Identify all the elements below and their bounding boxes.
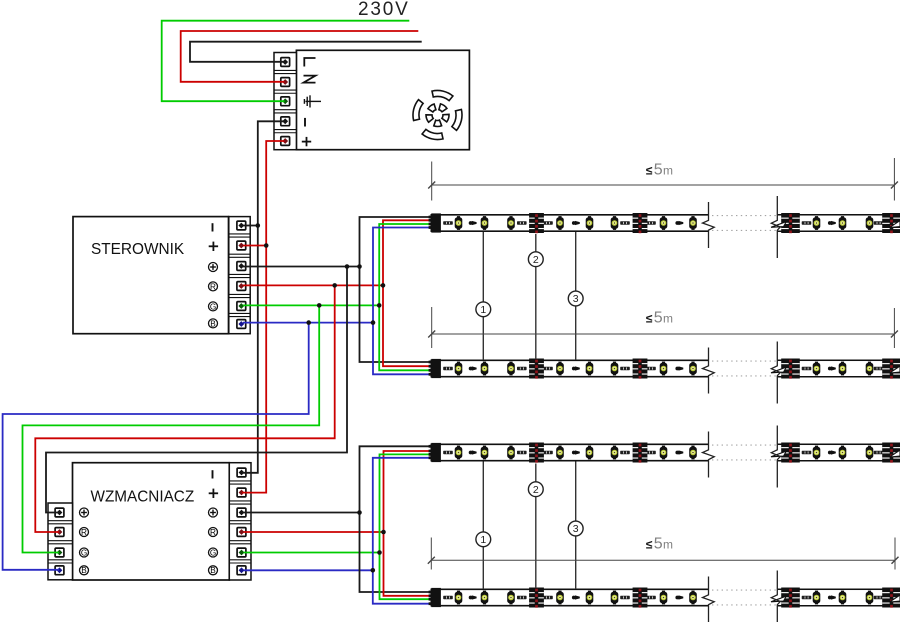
controller label plus [209,245,218,247]
svg-text:R: R [210,528,216,537]
direction arrow [469,450,477,454]
direction arrow [572,595,580,599]
SMD value label [874,221,884,224]
direction arrow [675,595,683,599]
SMD value label [646,451,656,454]
SMD value label [543,221,553,224]
amplifier left label circled B [80,566,89,575]
strip S4 body right segment [777,589,897,605]
LED module [813,446,821,460]
solder pads (cut point) [633,359,648,379]
direction arrow [675,366,683,370]
solder pads (cut point) [781,213,800,233]
direction arrow [828,221,836,225]
SMD value label [874,451,884,454]
wire amplifier R output (red) [244,531,384,533]
amplifier label minus [212,470,214,478]
SMD value label [646,367,656,370]
direction arrow [572,450,580,454]
wire branch common to amplifier input (black) [46,267,347,513]
direction arrow [675,221,683,225]
wire controller G output (green) [243,304,379,306]
wire amplifier common output (black) [244,512,360,514]
LED module [689,362,697,376]
PSU terminal label N (rotated) [304,76,316,83]
svg-text:3: 3 [573,293,579,305]
wire controller R output (red) [243,284,383,286]
LED module [507,216,515,230]
SMD value label [443,596,453,599]
wire bundle pair1 common (black) [360,217,432,362]
solder pads (cut point) [882,359,900,379]
wire link 3 pair2 [575,462,577,590]
strip S2 break line right [771,342,780,404]
controller terminal - [237,221,246,230]
amplifier in terminal B [55,566,64,575]
LED module [839,446,847,460]
LED module [455,591,463,605]
wire link 3 pair1 [575,232,577,360]
controller STEROWNIK body [73,217,229,334]
svg-text:B: B [210,319,216,328]
dimension max 5m strip S4 [428,538,899,570]
wire bundle pair2 R (red) [384,451,432,596]
SMD value label [802,451,812,454]
amplifier right terminal strip [229,463,251,580]
svg-text:5: 5 [654,162,663,179]
solder pads (cut point) [529,213,544,233]
LED module [813,216,821,230]
svg-text:1: 1 [480,534,486,546]
controller terminal strip [229,217,250,334]
controller terminal common [237,262,246,271]
strip S1 end wedge [890,221,900,228]
power supply PSU body [296,50,469,149]
svg-text:1: 1 [480,304,486,316]
junction pair1 B [371,320,376,325]
solder pads (cut point) [882,588,900,608]
direction arrow [469,366,477,370]
SMD value label [802,367,812,370]
LED module [839,591,847,605]
LED module [556,446,564,460]
dimension max 5m strip S1 [428,158,898,201]
wire link 1 pair1 [482,232,484,360]
wire link 2 pair2 [535,464,537,589]
strip S4 hidden-length dotted lines [712,589,776,591]
node label 3 pair2 [568,521,583,536]
LED module [586,591,594,605]
strip S1 break wedge [771,222,786,228]
PSU terminal strip (L N PE - +) [274,53,296,150]
amplifier label plus [209,492,218,494]
amplifier left label circled G [80,548,89,557]
LED module [839,216,847,230]
node label 1 pair2 [476,532,491,547]
LED module [586,446,594,460]
amplifier in terminal R [55,528,64,537]
amplifier right label circled B [209,566,218,575]
svg-text:G: G [81,548,87,557]
junction V- controller [255,223,260,228]
amplifier WZMACNIACZ body [73,463,230,580]
SMD value label [802,221,812,224]
strip S3 break line right [771,426,780,488]
SMD value label [874,596,884,599]
strip S3 end wedge [890,450,900,457]
svg-text:m: m [663,164,673,178]
svg-text:G: G [210,302,216,311]
SMD value label [517,451,527,454]
svg-text:WZMACNIACZ: WZMACNIACZ [91,488,195,505]
svg-text:5: 5 [654,310,663,327]
LED module [839,362,847,376]
svg-text:G: G [210,548,216,557]
amplifier right label circled G [209,548,218,557]
junction G branch [317,303,322,308]
LED module [556,216,564,230]
LED module [660,216,668,230]
LED module [611,362,619,376]
svg-text:R: R [81,528,87,537]
svg-text:3: 3 [573,523,579,535]
strip S3 body right segment [777,444,897,460]
amplifier out terminal B [237,566,246,575]
strip S2 hidden-length dotted lines [712,360,776,362]
wire branch B to amplifier input (blue) [3,323,309,570]
amplifier out terminal common [237,508,246,517]
solder pads (cut point) [633,588,648,608]
wire amplifier B output (blue) [244,569,373,571]
amplifier out terminal R [237,528,246,537]
strip S4 body left segment [431,589,708,605]
controller label circled B [209,319,218,328]
svg-text:230V: 230V [358,0,410,20]
direction arrow [572,221,580,225]
direction arrow [828,366,836,370]
wire mains N (red) [181,31,419,82]
PSU terminal N [281,78,290,87]
LED module [611,591,619,605]
junction common branch [345,264,350,269]
SMD value label [517,367,527,370]
controller terminal G [237,302,246,311]
controller terminal R [237,282,246,291]
LED module [586,362,594,376]
wire controller B output (blue) [243,322,373,324]
SMD value label [874,367,884,370]
wire V+ stub to controller [243,245,266,247]
wire controller common + output (black) [243,266,360,268]
wire link 2 pair1 [535,234,537,359]
strip S2 end wedge [890,366,900,373]
solder pads (cut point) [529,443,544,463]
strip S4 input connector (4 pins) [431,588,441,607]
LED module [660,446,668,460]
junction pair2 common [357,510,362,515]
strip S3 break line left [703,432,715,478]
amplifier left terminal strip [48,503,73,580]
SMD value label [517,221,527,224]
amplifier left label circled plus [80,508,89,517]
LED module [455,362,463,376]
PSU fan [432,90,453,100]
strip S3 break wedge [771,451,786,457]
LED module [866,362,874,376]
amplifier terminal - [237,468,246,477]
LED module [556,362,564,376]
svg-text:≤: ≤ [646,538,653,552]
strip S3 hidden-length dotted lines [712,444,776,446]
solder pads (cut point) [781,443,800,463]
svg-text:B: B [210,566,216,575]
junction pair1 R [381,283,386,288]
svg-text:2: 2 [533,484,539,496]
controller label circled R [209,282,218,291]
node label 3 pair1 [568,291,583,306]
wire V- from PSU to amplifier (black) [242,121,285,473]
PSU terminal L [281,58,290,67]
direction arrow [675,450,683,454]
wire link 1 pair2 [482,462,484,590]
PSU terminal label PE (earth symbol) [304,95,321,107]
amplifier in terminal G [55,548,64,557]
SMD value label [543,451,553,454]
strip S1 body left segment [431,215,708,231]
junction pair2 R [381,530,386,535]
amplifier out terminal G [237,548,246,557]
PSU terminal PE [281,97,290,106]
strip S1 break line right [771,196,780,258]
LED strip S1 [429,196,900,258]
svg-text:2: 2 [533,254,539,266]
controller terminal + [237,241,246,250]
LED module [866,216,874,230]
junction R branch [332,283,337,288]
strip S4 break line left [703,577,715,622]
wire branch R to amplifier input (red) [35,285,334,532]
strip S3 input connector (4 pins) [431,443,441,462]
solder pads (cut point) [781,359,800,379]
SMD value label [620,221,630,224]
LED module [611,216,619,230]
amplifier right label circled plus [209,508,218,517]
LED module [689,216,697,230]
controller label minus [212,223,214,231]
LED module [455,216,463,230]
strip S1 hidden-length dotted lines [712,215,776,217]
LED module [507,362,515,376]
junction B branch [306,320,311,325]
SMD value label [620,451,630,454]
node label 2 pair2 [528,482,543,497]
LED module [866,446,874,460]
PSU terminal label L (rotated) [304,58,315,67]
svg-text:≤: ≤ [646,312,653,326]
solder pads (cut point) [633,213,648,233]
amplifier right label circled R [209,528,218,537]
junction V+ controller [264,243,269,248]
SMD value label [443,221,453,224]
SMD value label [543,367,553,370]
LED module [481,362,489,376]
svg-text:m: m [663,312,673,326]
strip S1 break line left [703,202,715,248]
PSU terminal label plus [302,141,311,143]
SMD value label [517,596,527,599]
wire bundle pair1 R (red) [383,220,432,366]
LED module [556,591,564,605]
LED strip S3 [429,426,900,488]
wire bundle pair2 B (blue) [373,458,432,604]
junction pair2 B [371,568,376,573]
LED module [481,446,489,460]
LED module [481,591,489,605]
SMD value label [543,596,553,599]
svg-text:5: 5 [654,536,663,553]
LED module [660,362,668,376]
junction pair2 G [377,550,382,555]
amplifier in terminal common [55,508,64,517]
amplifier left label circled R [80,528,89,537]
direction arrow [469,221,477,225]
direction arrow [828,595,836,599]
strip S4 break line right [771,571,780,622]
LED module [813,591,821,605]
SMD value label [646,596,656,599]
controller label circled plus [209,263,218,272]
node label 2 pair1 [528,252,543,267]
strip S3 body left segment [431,444,708,460]
strip S2 break wedge [771,367,786,373]
junction pair1 G [377,303,382,308]
strip S4 break wedge [771,596,786,602]
svg-text:STEROWNIK: STEROWNIK [91,241,185,258]
LED module [866,591,874,605]
strip S1 input connector (4 pins) [431,213,441,232]
wire bundle pair1 G (green) [379,224,431,370]
wire amplifier G output (green) [244,552,380,554]
amplifier terminal + [237,488,246,497]
LED module [813,362,821,376]
node label 1 pair1 [476,302,491,317]
strip S2 break line left [703,348,715,394]
LED module [481,216,489,230]
svg-text:≤: ≤ [646,164,653,178]
strip S2 input connector (4 pins) [431,359,441,378]
controller label circled G [209,302,218,311]
direction arrow [828,450,836,454]
wire branch G to amplifier input (green) [23,305,320,552]
LED module [455,446,463,460]
svg-text:B: B [81,566,87,575]
LED module [689,446,697,460]
solder pads (cut point) [882,213,900,233]
wire V- stub to controller [243,225,258,227]
wire V+ from PSU to amplifier (red) [242,141,285,493]
controller terminal B [237,320,246,329]
direction arrow [469,595,477,599]
LED module [611,446,619,460]
LED strip S4 [429,571,900,622]
solder pads (cut point) [633,443,648,463]
LED module [586,216,594,230]
PSU terminal V- [281,117,290,126]
wire mains L (black) [190,42,422,62]
SMD value label [802,596,812,599]
SMD value label [646,221,656,224]
svg-text:R: R [210,282,216,291]
svg-text:m: m [663,538,673,552]
direction arrow [572,366,580,370]
solder pads (cut point) [882,443,900,463]
solder pads (cut point) [529,359,544,379]
SMD value label [443,451,453,454]
wire bundle pair2 G (green) [380,454,432,599]
solder pads (cut point) [781,588,800,608]
strip S1 body right segment [777,215,897,231]
LED module [660,591,668,605]
wire bundle pair2 common (black) [360,446,432,592]
strip S4 end wedge [890,595,900,602]
SMD value label [443,367,453,370]
solder pads (cut point) [529,588,544,608]
LED module [689,591,697,605]
PSU terminal V+ [281,137,290,146]
strip S2 body left segment [431,360,708,376]
LED module [507,591,515,605]
wire bundle pair1 B (blue) [373,228,432,375]
SMD value label [620,367,630,370]
SMD value label [620,596,630,599]
dimension max 5m strip S2 [428,307,898,348]
junction pair1 common [357,264,362,269]
LED module [507,446,515,460]
PSU terminal label minus [304,118,306,127]
wire mains PE (green) [162,21,410,102]
strip S2 body right segment [777,360,897,376]
LED strip S2 [429,342,900,404]
